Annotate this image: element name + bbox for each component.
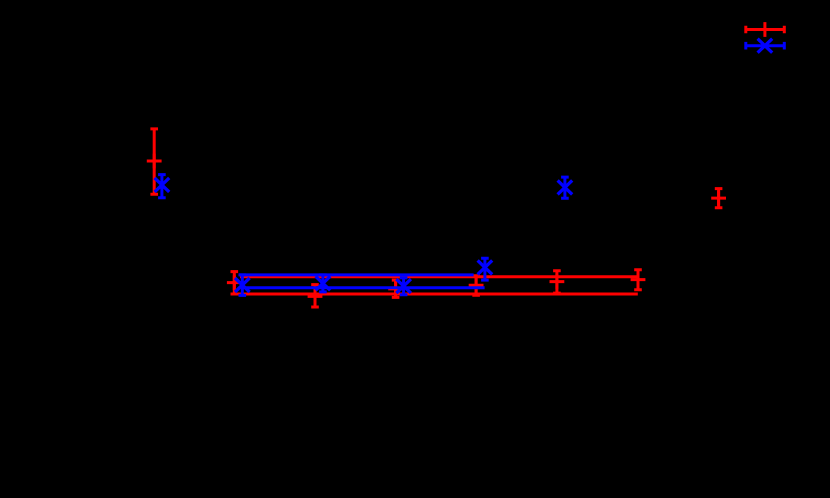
- red point R2 plus marker: [308, 289, 323, 304]
- blue point B1 x marker: [235, 278, 250, 292]
- legend blue errorbar sample: [746, 42, 785, 50]
- red point R3 plus marker: [388, 282, 403, 297]
- blue point B4 x marker: [478, 260, 493, 274]
- red point R1 error bar: [231, 272, 239, 294]
- legend red errorbar sample: [746, 26, 785, 34]
- blue point B1 error bar: [239, 275, 247, 296]
- red series band lower line: [231, 293, 638, 296]
- blue point B5 top-left error bar: [158, 175, 166, 198]
- red isolated point R8 plus marker: [711, 191, 726, 206]
- blue point B5 x marker: [155, 178, 170, 192]
- red point R5 plus marker: [550, 274, 565, 289]
- blue point B4 error bar: [481, 258, 489, 280]
- blue point B2 x marker: [316, 276, 331, 290]
- blue point B3 error bar: [400, 278, 408, 295]
- red point R2 error bar: [311, 285, 319, 307]
- red isolated point R8 error bar: [715, 189, 723, 208]
- red point R7 plus marker: [147, 154, 162, 169]
- red series band upper line: [240, 275, 638, 278]
- red point R4 error bar: [472, 276, 480, 295]
- red point R6 plus marker: [631, 272, 646, 287]
- legend red plus marker: [758, 22, 773, 37]
- red point R6 error bar: [634, 270, 642, 290]
- blue series band upper line: [239, 273, 474, 276]
- red point R1 plus marker: [227, 275, 242, 290]
- red point R7 top-left error bar: [150, 129, 158, 194]
- legend blue x marker: [758, 39, 773, 53]
- blue isolated point B6 error bar: [561, 177, 569, 198]
- red point R4 plus marker: [469, 278, 484, 293]
- blue isolated point B6 x marker: [558, 180, 573, 194]
- red point R3 error bar: [392, 280, 400, 297]
- blue series band lower line: [242, 286, 485, 289]
- blue point B2 error bar: [319, 275, 327, 292]
- red point R5 error bar: [553, 271, 561, 293]
- blue point B3 x marker: [396, 279, 411, 293]
